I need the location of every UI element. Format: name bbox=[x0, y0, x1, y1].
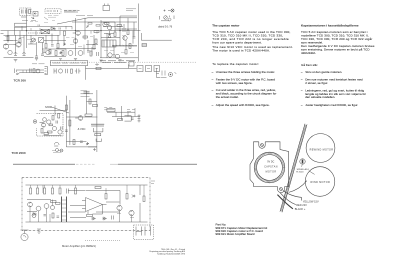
transistor Q405 bbox=[129, 210, 134, 215]
resistor R303 bbox=[52, 116, 54, 121]
resistor R401 bbox=[30, 188, 32, 194]
svg-text:MOTOR: MOTOR bbox=[266, 172, 277, 174]
resistor R404 bbox=[52, 188, 54, 194]
separator rule right bbox=[118, 163, 197, 165]
wire bbox=[87, 101, 97, 103]
connector bar X401 bbox=[62, 197, 67, 223]
rectifier B1 diag bbox=[39, 38, 44, 43]
marks right cluster bbox=[116, 108, 135, 117]
transistor Q301 bbox=[58, 69, 62, 73]
meter M1 needle bbox=[165, 17, 167, 19]
transistor Q306 leads bbox=[75, 116, 81, 120]
small box K1 bbox=[129, 62, 134, 67]
resistor R413 bbox=[52, 213, 54, 218]
label A2 marks bbox=[47, 10, 58, 12]
label marks near x65 bbox=[64, 10, 78, 12]
wire bbox=[42, 48, 66, 50]
capacitor C7 bbox=[22, 53, 26, 56]
ground tag bbox=[37, 229, 41, 233]
wire bottom bbox=[56, 48, 96, 50]
transistor Q1 bbox=[76, 31, 81, 36]
svg-text:TCR 2000: TCR 2000 bbox=[12, 151, 26, 155]
resistor R414 bbox=[56, 203, 61, 205]
tick bbox=[175, 72, 177, 74]
resistor R314 bbox=[118, 119, 123, 121]
wire bbox=[40, 110, 67, 112]
diode D401 bbox=[33, 212, 37, 215]
screw hole bottom bbox=[280, 188, 283, 191]
wire bbox=[112, 45, 137, 47]
arrow lead bbox=[17, 73, 21, 75]
hatch ticks bbox=[113, 45, 133, 46]
wire stubs2 bbox=[43, 185, 53, 222]
svg-text:den aktuelle modellen.: den aktuelle modellen. bbox=[305, 95, 335, 99]
wire bbox=[15, 22, 27, 24]
ground g5 bbox=[59, 59, 62, 61]
transistor Q4 bbox=[107, 25, 111, 29]
transistor Q2 bbox=[73, 39, 78, 44]
resistor R405 bbox=[59, 188, 61, 194]
dashed motor box bbox=[134, 225, 154, 240]
wire top t bbox=[81, 93, 94, 95]
wire vertical right edge bbox=[138, 4, 140, 62]
wire vertical main bbox=[65, 96, 67, 147]
transistor Q8 bbox=[68, 51, 73, 56]
transistor Q302 bbox=[41, 123, 45, 127]
separator rule between schematics bbox=[13, 163, 197, 165]
relay contacts row bbox=[137, 66, 143, 72]
dotted trim line bbox=[85, 240, 120, 242]
small circle 2 bbox=[60, 149, 63, 152]
resistor R21 bbox=[114, 32, 116, 37]
resistor R313 bbox=[93, 105, 98, 107]
wire bbox=[101, 37, 120, 39]
svg-text:-6 VDC: -6 VDC bbox=[77, 127, 86, 131]
resistor R310 bbox=[41, 129, 43, 134]
wire vertical bbox=[100, 20, 102, 58]
transistor Q7 leads bbox=[5, 44, 7, 49]
mains connector P401 bbox=[21, 233, 28, 240]
capacitor C403 bbox=[57, 216, 60, 218]
marks top bbox=[81, 91, 90, 97]
resistor R406 bbox=[51, 201, 57, 203]
capacitor C304 bbox=[84, 91, 90, 93]
transistor Q3 bbox=[103, 22, 107, 26]
wire drops from bus bbox=[8, 31, 133, 54]
component row bottom: transistor Q6 bbox=[16, 42, 21, 47]
resistor R25 bbox=[49, 50, 51, 55]
resistor R5 bbox=[64, 31, 66, 36]
label marks above bbox=[32, 63, 45, 65]
wire bbox=[88, 17, 137, 19]
wire yellow bbox=[277, 181, 306, 209]
junction dots bbox=[75, 30, 76, 31]
transistor Q11 bbox=[115, 54, 119, 58]
additional density pass: schematic 2 bbox=[40, 91, 136, 151]
ground bbox=[14, 60, 18, 62]
pot R11 arrow bbox=[33, 39, 35, 41]
transistor Q5 bbox=[123, 36, 127, 40]
box module bbox=[107, 108, 115, 111]
connector J2 pins bbox=[105, 4, 109, 6]
wire verticals right cluster bbox=[115, 18, 134, 36]
capacitor C6 bbox=[14, 53, 18, 56]
transistor Q302 leads bbox=[43, 123, 45, 127]
capacitor C305 plates bbox=[91, 124, 104, 126]
connector P1 bbox=[33, 12, 38, 17]
resistor R22 bbox=[127, 30, 129, 35]
svg-text:9V DC: 9V DC bbox=[267, 162, 274, 164]
transistor Q304 bbox=[52, 126, 56, 130]
resistor R409 bbox=[75, 188, 77, 194]
wire stub bottom bbox=[30, 207, 132, 222]
diode D301 bbox=[54, 69, 56, 74]
wire mid bbox=[68, 212, 120, 219]
wire bbox=[103, 27, 137, 30]
contact marks right bbox=[161, 71, 167, 78]
bottom components: resistor R315 bbox=[73, 140, 75, 145]
svg-text:The motor is used in TCD 420A/: The motor is used in TCD 420A/440A. bbox=[212, 49, 270, 53]
header text marks bbox=[53, 62, 87, 64]
wire ground rail bottom bbox=[26, 221, 148, 223]
wind motor bbox=[305, 167, 335, 197]
wire stubs bbox=[76, 185, 145, 196]
hatched strip bbox=[112, 45, 137, 47]
resistor R306 bbox=[65, 105, 67, 110]
transformer T1 bbox=[41, 29, 50, 33]
svg-text:the actual model.: the actual model. bbox=[216, 95, 239, 99]
screw slot top bbox=[261, 144, 263, 146]
transistor Q9 bbox=[78, 51, 83, 56]
capacitor C404 bbox=[44, 215, 46, 216]
underline bbox=[161, 20, 169, 22]
schematic: TCR 200 motor connection strip bbox=[15, 64, 48, 75]
mains connector pins bbox=[23, 236, 26, 238]
small circles pair bbox=[56, 149, 59, 152]
capacitor C201 bbox=[30, 69, 32, 73]
capacitor C14 bbox=[113, 55, 116, 57]
terminal right bbox=[138, 114, 141, 122]
transistor Q405 leads bbox=[130, 211, 132, 216]
transistor Q12 bbox=[46, 50, 50, 54]
svg-text:WIND MOTOR: WIND MOTOR bbox=[310, 181, 330, 184]
motor amplifier board: dash-dot border bbox=[22, 178, 150, 231]
connector stamp circle bbox=[171, 9, 174, 12]
wire bbox=[112, 116, 140, 118]
transistor Q6 leads bbox=[14, 42, 20, 47]
resistor R7 bbox=[94, 31, 99, 33]
meter symbol M1 bbox=[164, 16, 168, 20]
tiny value labels row A bbox=[30, 21, 55, 23]
connector J201 bbox=[45, 67, 48, 75]
label q marks bbox=[117, 214, 134, 218]
resistor R308 bbox=[85, 114, 92, 116]
capacitor C101 bbox=[22, 10, 24, 14]
svg-text:RED 22V: RED 22V bbox=[296, 203, 307, 207]
diode D404 bbox=[103, 217, 107, 220]
wire black bbox=[277, 195, 293, 209]
wire bbox=[104, 33, 114, 35]
leader line bbox=[309, 171, 315, 175]
svg-text:with two screws, see figure.: with two screws, see figure. bbox=[216, 81, 253, 85]
resistor R19 bbox=[93, 45, 95, 50]
svg-text:REWIND MOTOR: REWIND MOTOR bbox=[310, 149, 334, 152]
svg-text:Motor Amplifier (p/n 999921): Motor Amplifier (p/n 999921) bbox=[62, 244, 96, 248]
resistor R16 bbox=[19, 39, 21, 44]
svg-text:Juster hastigheten med R2000,: Juster hastigheten med R2000, se figur. bbox=[305, 103, 358, 107]
wire bbox=[86, 67, 129, 69]
bracket component bbox=[125, 116, 132, 121]
part number list bbox=[216, 222, 268, 236]
resistor R305 bbox=[44, 133, 49, 135]
bracket under bbox=[93, 128, 103, 132]
diode D4 bbox=[59, 51, 62, 54]
wire bottom 2 bbox=[66, 142, 97, 147]
capacitor C9 bbox=[41, 54, 44, 56]
capacitor C5 bbox=[123, 24, 125, 40]
connector bar pins bbox=[62, 200, 67, 220]
capacitor C307 bbox=[61, 127, 63, 130]
additional density pass: schematic 1 bbox=[4, 10, 139, 62]
transistor Q404 bbox=[117, 205, 122, 210]
pot leader bbox=[301, 165, 302, 167]
resistor R24 bbox=[117, 25, 122, 27]
diode D403 bbox=[92, 217, 96, 220]
screw slot bottom bbox=[280, 188, 282, 190]
tiny value labels row C bbox=[5, 37, 31, 41]
diode D1 bbox=[51, 27, 56, 30]
svg-text:To replace the capstan motor:: To replace the capstan motor: bbox=[212, 62, 259, 66]
resistor R23 bbox=[105, 23, 110, 25]
schematic: speed regulator TCD300/310 (top left) bbox=[3, 4, 174, 63]
svg-text:Adjust the speed with R2000, s: Adjust the speed with R2000, see figure. bbox=[216, 103, 270, 107]
resistor R304 bbox=[58, 114, 60, 119]
diode D2 bbox=[108, 31, 111, 38]
resistor R14 bbox=[90, 51, 92, 56]
capstan motor body outer ring bbox=[254, 152, 285, 183]
small marks row mid bbox=[22, 26, 72, 35]
pot R11 bbox=[32, 38, 36, 42]
wire vertical bbox=[15, 35, 17, 55]
capacitor C302 bbox=[75, 69, 81, 74]
wire vertical bbox=[36, 42, 38, 56]
pot slot bbox=[302, 160, 304, 164]
motor terminal bracket M2 bbox=[145, 227, 151, 236]
svg-text:999 921 Motor Amplifier Boar: 999 921 Motor Amplifier Board bbox=[216, 232, 255, 236]
svg-text:The capstan motor: The capstan motor bbox=[212, 23, 240, 27]
svg-text:YELLOW 15V: YELLOW 15V bbox=[303, 199, 319, 203]
wire vertical bbox=[84, 18, 86, 40]
capacitor C401 bbox=[67, 189, 69, 194]
tall vertical bbox=[96, 90, 98, 152]
motor ring knurl bbox=[255, 153, 283, 181]
wire vertical bbox=[26, 8, 28, 48]
resistor R13 bbox=[62, 51, 64, 56]
ground 4 bbox=[99, 60, 102, 62]
tiny value labels row B bbox=[66, 37, 93, 47]
wire to wind motor bbox=[289, 181, 307, 193]
dashed box module A2 bbox=[45, 9, 61, 14]
label 45VDC marks bbox=[52, 151, 63, 153]
svg-text:420A/440A.: 420A/440A. bbox=[301, 51, 316, 55]
junction bbox=[26, 30, 27, 31]
capacitor C16 bbox=[43, 51, 46, 53]
screw hole top bbox=[261, 144, 264, 147]
cap C17 bbox=[38, 25, 40, 27]
transistor Q10 bbox=[108, 53, 112, 57]
wire inner bbox=[40, 123, 62, 136]
wire bbox=[4, 28, 27, 45]
plate screw tab bottom bbox=[278, 187, 285, 193]
transistor Q7 bbox=[3, 44, 8, 49]
resistor R12 bbox=[55, 51, 57, 56]
connector stamp X bbox=[172, 10, 174, 12]
wire mid extra bbox=[70, 202, 120, 218]
resistor R9 bbox=[102, 40, 116, 47]
wire row lower bbox=[4, 57, 139, 58]
wire right bbox=[139, 185, 141, 222]
connector J2 top bbox=[103, 6, 110, 11]
capacitor C11 bbox=[30, 42, 33, 44]
resistor R309 bbox=[95, 134, 101, 136]
transistor Q407 bbox=[32, 214, 36, 218]
capacitor C303 bbox=[65, 130, 68, 132]
marks bbox=[127, 110, 135, 112]
wire stub bbox=[129, 64, 137, 68]
vertical stubs lower bbox=[66, 45, 92, 57]
clutter pass 2: schematic 1 bbox=[1, 17, 138, 54]
transistor Q1 leads bbox=[73, 31, 79, 35]
wire vertical bbox=[106, 33, 108, 58]
resistor R10 bbox=[129, 44, 131, 49]
dashed box module A1 bbox=[20, 8, 32, 16]
cap C18 bbox=[59, 28, 61, 30]
wire bbox=[72, 21, 115, 23]
transistor Q13 bbox=[8, 50, 12, 54]
op-amp U401 bbox=[86, 198, 103, 212]
svg-text:Tandbergs Radiofabrikk A/S 19: Tandbergs Radiofabrikk A/S 1976 bbox=[157, 252, 185, 255]
wire vertical bbox=[23, 35, 25, 55]
wire bbox=[68, 190, 85, 192]
wire vertical bbox=[119, 16, 121, 46]
resistor R201 bbox=[33, 69, 35, 73]
diode D302 bbox=[86, 142, 89, 145]
wire vertical 2 bbox=[69, 100, 71, 145]
wire bbox=[120, 15, 137, 17]
resistor R301 bbox=[71, 69, 73, 73]
capacitor C301 bbox=[66, 69, 68, 73]
svg-text:TCR 200: TCR 200 bbox=[14, 79, 27, 83]
svg-text:R 2000: R 2000 bbox=[296, 172, 304, 174]
transistor Q406 bbox=[51, 206, 55, 210]
separator rule dash bbox=[110, 163, 118, 165]
terminal marks bottom bbox=[93, 148, 96, 151]
transistor Q306 bbox=[78, 116, 83, 121]
wire bus bbox=[4, 34, 60, 36]
capacitor C8 bbox=[35, 56, 38, 58]
wire bbox=[20, 72, 44, 74]
transistor Q403 bbox=[44, 204, 49, 209]
clutter pass 3: schematic 1 bbox=[4, 17, 135, 62]
ground 3 bbox=[74, 59, 77, 61]
svg-text:MOD: MOD bbox=[45, 105, 52, 109]
svg-text:Unscrew the three screws holdi: Unscrew the three screws holding the mot… bbox=[216, 70, 275, 74]
pot arrow R11b bbox=[86, 26, 89, 29]
resistor R312 bbox=[89, 99, 91, 104]
transistor Q305 bbox=[58, 130, 62, 134]
rewind motor bbox=[306, 134, 335, 163]
diag leader bbox=[44, 17, 48, 20]
wire stubs from rail bbox=[31, 185, 61, 188]
ground g6 bbox=[119, 60, 122, 62]
speed adj potentiometer R2000 bbox=[300, 159, 305, 167]
feedback wire bbox=[88, 205, 103, 215]
wire bbox=[86, 190, 121, 192]
bracket marks bbox=[160, 16, 175, 21]
wire supply rail top bbox=[26, 184, 148, 186]
svg-text:from our spare parts departmen: from our spare parts department. bbox=[212, 41, 262, 45]
wire vertical bbox=[14, 23, 16, 35]
label TCD300 text marks bbox=[126, 9, 136, 11]
resistor R412 bbox=[143, 196, 145, 202]
transistor Q2 leads bbox=[75, 39, 77, 43]
wire bottom bbox=[66, 146, 97, 148]
junction marks bbox=[23, 70, 27, 73]
svg-text:CAPSTAN: CAPSTAN bbox=[264, 166, 278, 169]
separator rule faded part bbox=[76, 163, 95, 165]
capacitor C402 bbox=[112, 216, 114, 220]
pcb outline dashed bbox=[37, 114, 64, 137]
resistor R402 bbox=[37, 188, 39, 194]
contact marks bbox=[139, 68, 159, 70]
extra marks under top boxes bbox=[22, 20, 36, 22]
svg-text:dated 5-1-76: dated 5-1-76 bbox=[158, 25, 173, 28]
header box bbox=[51, 61, 88, 66]
wire vertical bbox=[121, 106, 123, 120]
fuse F1 bbox=[142, 44, 147, 47]
bottom parts: capacitor C306 bbox=[54, 142, 59, 146]
diode D402 bbox=[132, 195, 136, 198]
resistor R403 bbox=[44, 188, 46, 194]
transistor Q402 bbox=[36, 206, 41, 211]
wire dashed net bbox=[28, 32, 42, 34]
schematic: TCR 2000 speed regulator (dashed block) bbox=[50, 61, 197, 80]
pin arrow P1 bbox=[34, 13, 37, 15]
mains lead bbox=[21, 230, 29, 233]
wire vertical bbox=[119, 191, 121, 205]
resistor R8 bbox=[95, 39, 97, 44]
resistor R18 bbox=[57, 44, 59, 49]
res R27 bbox=[96, 25, 100, 27]
wire bbox=[17, 69, 44, 71]
wire top bbox=[66, 116, 97, 118]
resistor R6 bbox=[83, 36, 88, 38]
wire vertical bbox=[54, 106, 56, 116]
transistor Q201 bbox=[36, 69, 40, 73]
transformer T1 core bbox=[41, 29, 50, 33]
pcb edge marks bbox=[151, 181, 155, 184]
wire red bbox=[280, 193, 296, 205]
mounting plate bbox=[250, 142, 289, 187]
belt hatching bbox=[280, 125, 306, 212]
motor terminal bracket M1 bbox=[136, 227, 142, 236]
wire bbox=[107, 111, 135, 113]
capacitor C13 bbox=[87, 51, 90, 53]
resistor R311 bbox=[48, 131, 53, 133]
wire diagonal feed bbox=[57, 18, 88, 24]
svg-text:SPEED ADJ.: SPEED ADJ. bbox=[297, 168, 310, 171]
resistor R302 bbox=[96, 67, 101, 69]
